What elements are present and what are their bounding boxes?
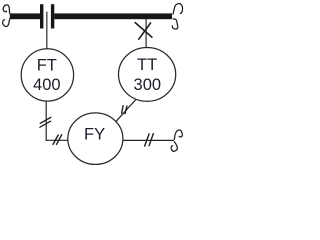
signal hash marks on diagonal	[122, 106, 127, 114]
signal hash marks on elbow horizontal	[53, 135, 62, 145]
squiggle break symbol at FY output end	[171, 130, 182, 151]
wire: FT drop line to elbow	[45, 101, 47, 140]
svg-text:300: 300	[134, 76, 162, 94]
svg-text:FT: FT	[37, 57, 57, 75]
wire: diagonal from TT to FY	[115, 100, 135, 122]
wire: elbow horizontal into FY	[46, 139, 68, 141]
wire: main pipe right segment	[54, 13, 172, 19]
wire: main pipe left segment	[10, 13, 40, 19]
instrument bubble FT	[21, 49, 73, 101]
squiggle break symbol at pipe right end	[172, 4, 182, 29]
svg-text:TT: TT	[137, 56, 157, 74]
wire: tap line from between plates down to FT	[46, 12, 48, 49]
capacitor right plate	[51, 4, 54, 28]
instrument bubble FY	[68, 113, 123, 165]
svg-text:400: 400	[33, 76, 61, 94]
capacitor left plate	[40, 4, 43, 28]
signal hash marks on FY output line	[145, 134, 154, 147]
wire: FY output line	[123, 139, 174, 141]
instrument bubble TT	[119, 48, 176, 102]
squiggle break symbol at pipe left end	[3, 5, 10, 27]
signal hash marks on FT drop line	[40, 117, 51, 127]
X mark on TT drop line	[135, 23, 152, 40]
svg-text:FY: FY	[84, 126, 105, 144]
wire: drop line from pipe down to TT	[145, 19, 147, 48]
